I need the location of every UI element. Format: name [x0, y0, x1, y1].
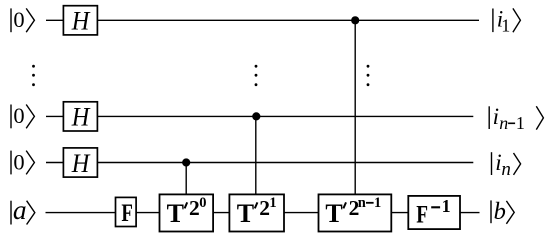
wire qubit n-1 main [97, 115, 473, 117]
svg-text:0: 0 [199, 195, 206, 211]
node |0> qubit n label [11, 149, 34, 174]
gate H (qubit n) U3 [63, 148, 97, 178]
gate F (Fourier) U4 [116, 197, 137, 226]
wire qubit n left stub [46, 162, 64, 164]
svg-text:1: 1 [516, 113, 525, 133]
svg-text:H: H [71, 103, 91, 132]
gate T'2^(n-1) U7 [319, 194, 392, 231]
svg-text:2: 2 [189, 196, 200, 220]
svg-text:T: T [237, 199, 254, 228]
svg-text:i: i [493, 104, 499, 129]
node |a> input label [11, 194, 35, 225]
control dot on qubit n [182, 158, 190, 166]
node |i1> qubit 1 output label [493, 6, 521, 35]
ellipsis dots middle column [255, 65, 258, 86]
svg-text:F: F [416, 201, 428, 228]
svg-text:a: a [13, 194, 27, 225]
gate T'2^1 U6 [229, 194, 284, 231]
svg-text:n: n [501, 159, 511, 180]
node |0> qubit n-1 label [11, 103, 34, 128]
svg-text:0: 0 [13, 7, 24, 32]
svg-text:H: H [71, 7, 91, 36]
ellipsis dots left column [32, 65, 35, 86]
svg-text:1: 1 [501, 15, 510, 35]
svg-text:n: n [499, 113, 508, 133]
node |i n> output label [492, 150, 521, 180]
wire b-register segment T'2^(n-1) to F^-1 [391, 212, 408, 214]
svg-text:1: 1 [269, 195, 276, 211]
control dot on qubit1 [351, 16, 359, 24]
node |i n-1> output label [489, 104, 543, 133]
vertical control wire from qubit1 to T'2^(n-1) [354, 20, 356, 194]
wire b-register segment a to F [46, 212, 116, 214]
svg-text:n: n [358, 195, 366, 211]
svg-text:1: 1 [442, 196, 451, 216]
svg-text:H: H [71, 149, 91, 178]
node |b> output label [491, 198, 514, 225]
wire qubit1 main [97, 19, 479, 21]
svg-text:0: 0 [13, 103, 24, 128]
wire b-register segment F^-1 to b [460, 212, 480, 214]
wire b-register segment T'2^1 to T'2^(n-1) [284, 212, 319, 214]
wire qubit n-1 left stub [46, 115, 64, 117]
svg-text:F: F [121, 200, 132, 227]
svg-text:0: 0 [13, 149, 24, 174]
svg-text:b: b [494, 198, 506, 225]
wire b-register segment F to T'2^0 [136, 212, 159, 214]
wire qubit1 left stub [46, 19, 64, 21]
gate F^-1 (inverse Fourier) U8 [408, 196, 460, 229]
gate T'2^0 U5 [160, 194, 214, 231]
control dot on qubit n-1 [252, 112, 260, 120]
ellipsis dots right column [367, 65, 370, 86]
svg-text:T: T [167, 199, 184, 228]
svg-text:2: 2 [259, 196, 270, 220]
gate H (qubit n-1) U2 [63, 102, 97, 132]
vertical control wire from qubit n-1 to T'2^1 [255, 116, 257, 194]
wire qubit n main [97, 162, 473, 164]
wire b-register segment T'2^0 to T'2^1 [213, 212, 229, 214]
gate H (qubit 1) U1 [63, 6, 97, 36]
svg-text:T: T [325, 199, 342, 228]
svg-text:1: 1 [374, 195, 381, 211]
node |0> qubit 1 label [11, 7, 34, 32]
vertical control wire from qubit n to T'2^0 [185, 163, 187, 195]
